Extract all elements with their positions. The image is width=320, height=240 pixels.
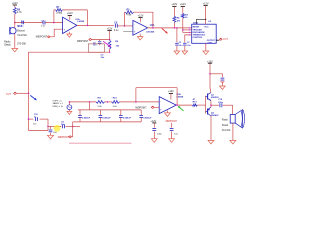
wire cap to speaker [223,105,233,114]
wire page marker line [69,142,132,144]
wire rail down [28,93,30,130]
label filter C13 [102,117,111,119]
wire emitter junction [210,101,212,107]
node loop out [47,126,49,128]
capacitor C15 coupling [220,103,222,107]
svg-text:LM1458: LM1458 [146,30,155,33]
svg-text:100u: 100u [157,134,163,136]
label R5 470k [126,10,132,17]
label C10 below [33,124,37,126]
ground trigger cap [174,51,180,54]
label VSIN params [53,100,64,108]
power +12V Q1 [207,60,213,63]
svg-text:0.056uF: 0.056uF [102,117,111,119]
wire R6 to mic node [14,14,16,23]
svg-text:+12V: +12V [12,2,18,5]
resistor R7 [56,9,63,12]
power +12V U2A [138,15,144,18]
label R7 1meg [56,7,62,15]
label C7 0.1u [41,20,46,27]
svg-text:Shack: Shack [222,125,229,127]
svg-text:VOFF = 0: VOFF = 0 [53,100,63,102]
pin THRESHOLD [189,32,206,37]
label U2A [150,24,155,27]
label LM1458 [146,30,155,33]
wire row Q [78,109,141,111]
marker probe green [178,106,184,111]
capacitor divider bypass [98,40,101,46]
svg-text:MIDPOINT: MIDPOINT [77,41,89,43]
highlight yellow probe [54,125,61,132]
svg-text:U2A: U2A [150,24,155,27]
node MIDPOINT bypass [166,121,178,123]
wire divider to MIDPOINT [92,39,110,41]
label R3 [185,14,189,19]
resistor R12 [112,101,120,104]
label mic electret [17,26,28,37]
resistor R6 [13,7,16,14]
svg-text:+12V: +12V [171,3,177,6]
capacitor C16 bypass [152,123,156,139]
label C15 100u [218,99,224,104]
wire hysteresis vertical [124,12,125,26]
wire small cap branch [50,126,52,129]
wire V1 to row [68,102,70,105]
label R6 4.7k [17,8,22,14]
pin CONTROL [189,34,204,39]
node midpoint riser [72,126,74,128]
svg-text:CONTROL: CONTROL [193,37,204,39]
node row P feedback [135,101,137,103]
pin RESET [193,19,200,28]
svg-text:MIDPOINT: MIDPOINT [36,37,48,39]
svg-text:LM358: LM358 [77,21,85,23]
capacitor C11 small [49,130,58,134]
capacitor C1 small series [22,21,24,24]
node MIDPOINT flag U1 [36,36,50,39]
label C10 above [34,114,39,118]
wire +12V to U1B [170,93,172,99]
ground V1 [67,110,72,115]
pin GND [206,42,213,51]
label C2 [179,42,184,47]
capacitor C8 [115,24,117,28]
marker probe magenta [103,41,111,47]
svg-text:2N2907: 2N2907 [211,115,219,117]
node MIDPOINT flag bottom [58,136,73,139]
capacitor filter C12 [78,110,82,122]
node rail junction [28,93,30,95]
wire loop top [29,118,49,120]
wire C8 to U2 [118,25,133,27]
svg-text:555D: 555D [193,23,199,25]
node row P riser [89,101,91,103]
capacitor filter C14 [119,110,123,122]
capacitor C3 control [183,35,189,51]
IC U3 555 [192,24,217,43]
svg-text:OUT: OUT [6,93,12,96]
wire Q2 collector ground [210,116,212,140]
node emitter [210,104,212,106]
node loop top [28,118,30,120]
power +12V divider [107,29,113,31]
node MIDPOINT flag divider [77,38,92,43]
svg-text:+12V: +12V [180,3,186,6]
svg-text:0.056uF: 0.056uF [82,117,91,119]
wire riser rowQ [89,102,91,110]
node supply tee [209,73,211,75]
ground midpoint cap [169,139,175,143]
node U1B output [176,104,178,106]
wire mic node to C7 [15,22,43,24]
wire divider top [109,30,111,39]
power +12V U1A [67,12,73,15]
svg-text:Radio: Radio [222,120,229,122]
wire U1A output [77,24,114,26]
wire C7 to U1 input [45,22,62,24]
node output hysteresis [152,27,154,29]
node row P mid [107,101,109,103]
resistor R13 base [192,104,197,106]
label C17 [174,134,178,136]
svg-text:Cond Mic: Cond Mic [17,35,28,37]
capacitor C14 supply [221,78,225,82]
svg-text:4.7k: 4.7k [17,11,22,14]
power +12V 555 [203,2,209,5]
wire R4 to trigger row [173,22,175,28]
op-amp U1A [63,17,77,33]
svg-text:Shack: Shack [4,44,11,47]
node R4 trigger [174,27,176,29]
pin VCC [204,19,209,28]
label R8 10k [115,41,120,47]
ground bottom left [48,133,54,139]
svg-text:+12V: +12V [151,120,157,123]
wire +12V down to Q1 [209,63,212,92]
svg-text:10u: 10u [101,57,105,59]
label divider cap [93,42,97,46]
label C1 [21,21,25,28]
capacitor C7 [43,21,45,25]
svg-text:FREQ = 1k: FREQ = 1k [53,106,64,108]
label R11 [98,98,103,108]
svg-text:10u: 10u [61,124,65,126]
label Q1 [211,94,219,99]
node hysteresis join [124,25,126,27]
op-amp U2A [133,20,148,35]
svg-text:1meg: 1meg [56,13,62,15]
resistor R4 [173,16,176,22]
capacitor C9 series [63,125,65,129]
resistor R3 [181,13,184,18]
resistor R5 [125,11,133,14]
power +12V R3 [180,3,186,6]
label box cap value [101,55,105,60]
wire +12V to U1A vcc pin [69,15,71,19]
box hier block pot [88,44,104,53]
wire U1B feedback [136,88,177,105]
ground 555 [203,51,209,55]
svg-text:+12V: +12V [203,2,209,5]
marker probe blue [30,95,37,100]
label C8 0.1u [114,22,119,32]
wire box to cap row [48,125,61,127]
svg-text:0.1u: 0.1u [114,30,119,32]
ground Q2 [208,140,214,144]
label Radio Shack 270-090 [4,41,26,47]
capacitor C2 trigger [175,28,178,51]
wire bus midpoint [73,121,142,123]
wire feedback left vertical [53,10,55,23]
wire emitter to cap [211,104,219,106]
node divider mid [109,39,111,41]
capacitor filter C13 [99,110,103,122]
svg-text:40-1310: 40-1310 [222,130,231,132]
svg-text:VCC: VCC [204,27,209,29]
node U1A output feedback [87,25,89,27]
transistor Q2 2N2907 [206,107,211,116]
wire loop right [47,119,49,130]
node V1 row [69,101,71,103]
power +12V U1B [168,90,174,93]
svg-text:VAMPL = 1: VAMPL = 1 [53,102,64,105]
wire supply cap branch [210,74,222,77]
pin stub U2 plus [123,31,133,33]
wire OUT flag to rail [16,92,28,94]
wire +12V to 555 [205,6,207,20]
node trigger cap [176,27,178,29]
power +12V R4 [171,3,177,6]
label filter C14 [123,117,132,119]
svg-text:0.056uF: 0.056uF [123,117,132,119]
speaker LS1 [230,110,244,128]
label C3 [187,42,192,47]
wire base column [197,96,205,114]
source V1 sine [67,105,72,110]
ground U1B [165,110,171,116]
pin DISCHARGE [189,29,206,34]
wire hysteresis to output [134,12,153,28]
wire +12V to R4 [173,6,175,16]
wire pot bottom to rail [29,49,111,93]
wire U1B output [176,104,192,106]
microphone MK1 [10,23,16,48]
label R4 [177,17,181,23]
label C16 [157,134,163,136]
node OUT left flag [6,92,16,96]
svg-text:100u: 100u [218,102,224,104]
ground mic [12,48,18,51]
svg-text:MIDPOINT: MIDPOINT [135,107,147,109]
label U1A LM358 [75,18,85,23]
wire R3 to discharge threshold [183,18,189,32]
wire feedback top right [62,9,87,11]
pin OUTPUT [207,40,220,42]
wire speaker to ground [232,123,234,140]
node mic junction [14,22,16,24]
capacitor filter C15 [139,110,143,122]
wire U1A plus input [50,29,62,37]
svg-text:270-090: 270-090 [17,43,26,46]
svg-text:DISCHARGE: DISCHARGE [193,31,206,34]
svg-text:LM358: LM358 [176,96,184,98]
svg-text:MIDPOINT: MIDPOINT [166,121,178,123]
capacitor C17 midpoint [170,123,174,139]
label R12 [113,98,118,108]
node R3 discharge [182,29,184,31]
label speaker Radio Shack 40-1310 [222,120,231,133]
label C9 10u [61,121,65,126]
svg-text:Electret: Electret [17,30,25,33]
ground U1A [67,32,72,37]
svg-text:OUT: OUT [223,38,229,41]
wire U2A output [148,27,189,29]
transistor Q1 2N2222 [206,93,211,101]
node MIDPOINT flag U1B [135,106,159,109]
capacitor C10 loop [35,117,37,121]
svg-text:RESET: RESET [193,27,200,29]
wire midpoint riser vertical [72,122,74,137]
svg-text:+12V: +12V [67,12,73,15]
wire +12V to R6 [14,5,16,7]
node OUT flag [220,38,229,41]
ground U2A [137,34,143,40]
svg-text:GND: GND [208,42,213,44]
resistor R8 divider [108,40,111,49]
power +12V rail for mic [12,2,18,5]
wire feedback top left [54,9,56,11]
svg-text:+12V: +12V [168,90,174,93]
wire cap to midpoint riser [66,125,80,127]
wire reset vcc tie [196,19,206,20]
label filter C12 [82,117,91,119]
svg-text:MIDPOINT: MIDPOINT [58,137,70,139]
label U3 [193,21,212,25]
wire row P [69,101,159,103]
ground control cap [182,51,188,54]
wire loop bottom [29,130,49,132]
op-amp U1B [159,97,176,114]
ground bypass 12V [151,139,157,143]
svg-text:470k: 470k [126,14,132,16]
pin TRIGGER [189,27,203,31]
resistor R11 [96,101,105,104]
power +12V bypass [151,120,157,123]
wire feedback right vertical [86,10,88,26]
wire +12V to R3 [182,6,184,13]
wire +12V to U2A [140,18,142,23]
ground supply cap [220,82,226,90]
label U1B LM358 [176,94,184,99]
node feedback join U1 [53,22,55,24]
ground speaker [230,140,236,144]
label Q2 [211,113,219,118]
marker probe red [162,28,168,33]
label filter C15 [143,117,152,119]
label R13 47 [193,98,198,103]
